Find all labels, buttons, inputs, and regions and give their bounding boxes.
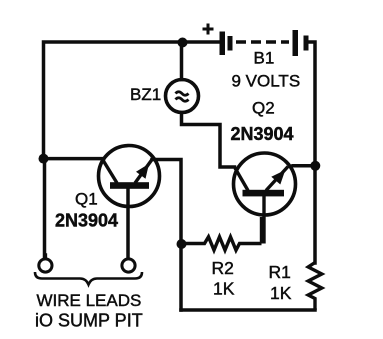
resistor R2: [182, 217, 262, 250]
wire Q2 emitter to right rail: [293, 164, 316, 168]
resistor R1: [308, 263, 322, 311]
svg-text:iO SUMP PIT: iO SUMP PIT: [35, 311, 143, 331]
svg-text:BZ1: BZ1: [130, 85, 161, 104]
wire left rail lower: [43, 158, 47, 258]
wire right rail: [308, 42, 315, 263]
node right rail junction: [310, 161, 320, 171]
battery plate short left: [228, 36, 233, 51]
wire Q1 collector horizontal: [44, 157, 104, 161]
probe terminal left: [39, 259, 52, 272]
battery plate short right: [304, 36, 309, 51]
node left junction: [39, 154, 49, 164]
node R2 junction: [177, 239, 187, 249]
svg-text:R1: R1: [269, 262, 291, 282]
transistor Q1: [99, 146, 160, 207]
wire bottom rail: [181, 308, 315, 312]
svg-text:Q2: Q2: [252, 99, 275, 118]
wire BZ1 bottom to Q2 collector: [182, 113, 235, 168]
wire Q2 base lead: [262, 196, 265, 244]
battery plate long right: [293, 30, 299, 56]
brace under probes: [35, 272, 142, 285]
svg-text:1K: 1K: [213, 279, 235, 299]
battery plus sign: [203, 24, 214, 35]
battery plate long left: [220, 32, 226, 56]
buzzer BZ1: [166, 80, 199, 113]
battery dashed middle: [236, 40, 289, 43]
wire Q1 base lead to probe: [126, 188, 130, 259]
wire Q1 emitter to vertical: [152, 160, 181, 311]
battery B1: [203, 24, 309, 57]
wire BZ1 top lead: [180, 42, 184, 80]
svg-text:B1: B1: [254, 49, 275, 68]
node top junction to BZ1: [178, 38, 188, 48]
transistor Q2: [234, 153, 296, 244]
svg-text:R2: R2: [212, 258, 234, 278]
svg-text:1K: 1K: [270, 283, 292, 303]
svg-text:WIRE LEADS: WIRE LEADS: [37, 291, 142, 310]
svg-text:2N3904: 2N3904: [231, 124, 294, 144]
wire left probe stub: [44, 255, 48, 259]
probe terminal right: [122, 259, 135, 272]
svg-text:2N3904: 2N3904: [55, 211, 118, 231]
svg-text:Q1: Q1: [75, 190, 98, 209]
wire top rail: [44, 42, 220, 158]
svg-text:9 VOLTS: 9 VOLTS: [232, 72, 301, 91]
